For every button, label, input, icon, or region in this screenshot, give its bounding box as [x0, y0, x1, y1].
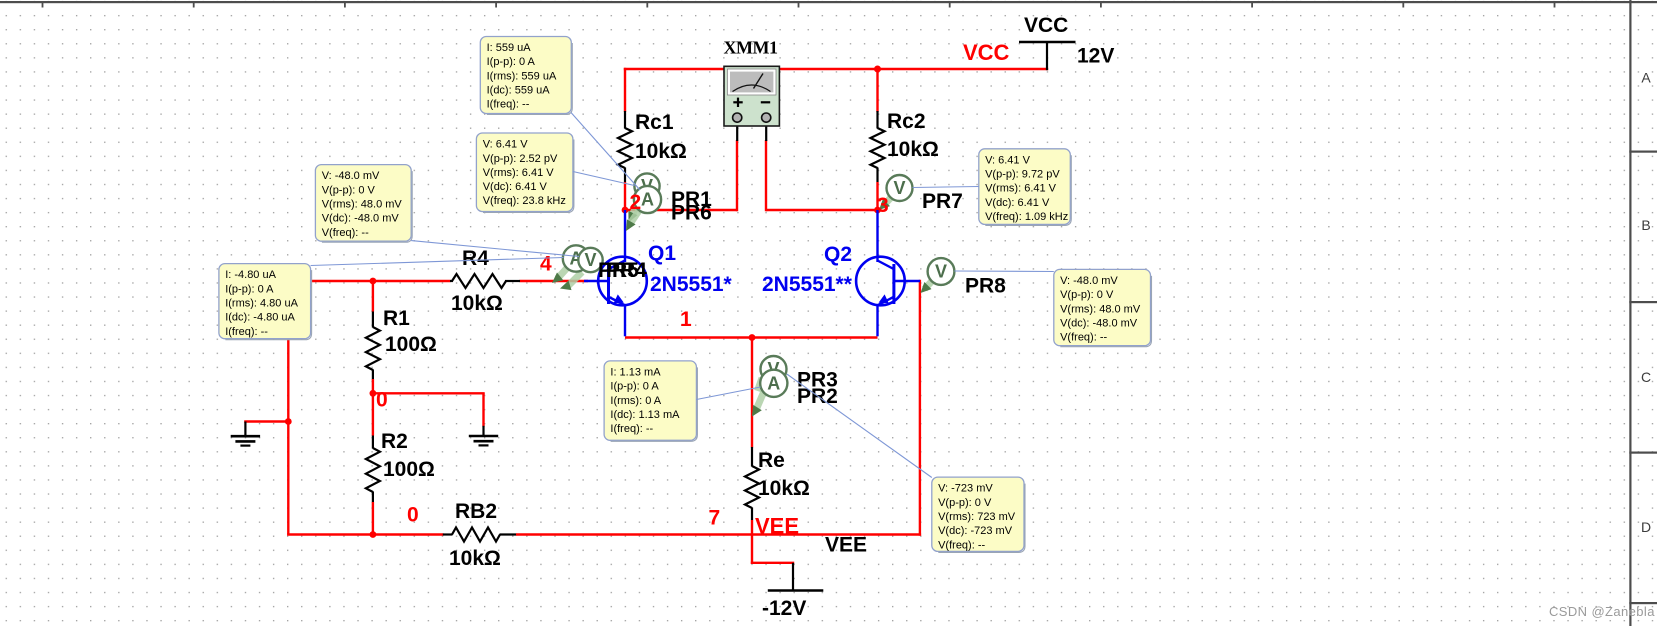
leader line box PR6	[573, 172, 635, 186]
svg-text:V: 6.41 V: V: 6.41 V	[985, 154, 1031, 166]
svg-text:V(dc): -48.0 mV: V(dc): -48.0 mV	[1060, 317, 1138, 329]
wire base net 4 horizontal right part	[520, 280, 589, 282]
wire Rc1 top lead	[624, 68, 626, 112]
node 2 junction dot	[622, 207, 629, 214]
svg-text:XMM1: XMM1	[724, 38, 778, 58]
svg-text:I(p-p): 0 A: I(p-p): 0 A	[487, 56, 536, 68]
svg-text:V: -48.0 mV: V: -48.0 mV	[322, 170, 380, 182]
svg-text:2N5551*: 2N5551*	[650, 273, 733, 296]
svg-text:10kΩ: 10kΩ	[449, 547, 501, 570]
svg-text:D: D	[1641, 519, 1651, 535]
wire Rc1 bottom to node 2	[624, 182, 626, 211]
svg-text:V(dc): 6.41 V: V(dc): 6.41 V	[985, 197, 1050, 209]
svg-text:V: -723 mV: V: -723 mV	[938, 483, 993, 495]
wire VEE bus right segment	[516, 533, 921, 535]
svg-text:V(dc): -723 mV: V(dc): -723 mV	[938, 525, 1013, 537]
resistor Rc1 10k	[618, 111, 687, 182]
svg-text:VCC: VCC	[1024, 14, 1068, 37]
transistor Q1 2N5551 (NPN)	[584, 242, 733, 305]
svg-text:V: V	[935, 262, 947, 282]
svg-text:0: 0	[376, 389, 388, 412]
resistor Rc2 10k	[871, 110, 939, 182]
svg-text:2N5551**: 2N5551**	[762, 273, 853, 296]
svg-text:100Ω: 100Ω	[385, 333, 437, 356]
svg-text:1: 1	[680, 308, 692, 331]
wire R1 bottom lead to node 0	[372, 379, 374, 394]
svg-text:V(freq): --: V(freq): --	[938, 539, 985, 551]
wire multimeter - pin drop	[765, 140, 767, 211]
svg-text:VEE: VEE	[825, 534, 867, 557]
svg-text:A: A	[641, 190, 654, 210]
leader line box PR2	[787, 374, 932, 478]
svg-text:I(rms): 4.80 uA: I(rms): 4.80 uA	[225, 298, 298, 310]
svg-text:V: V	[893, 178, 905, 198]
svg-text:100Ω: 100Ω	[383, 458, 435, 481]
wire R2 bottom lead	[372, 502, 374, 536]
wire base net 4 horizontal left part	[288, 280, 450, 282]
node 0 junction dot	[370, 390, 377, 397]
svg-text:10kΩ: 10kΩ	[451, 292, 503, 315]
leader line box PR3	[696, 387, 760, 400]
svg-text:Q1: Q1	[648, 242, 676, 265]
svg-text:I(dc): 559 uA: I(dc): 559 uA	[487, 85, 551, 97]
wire Rc2 top lead	[876, 68, 878, 112]
power VCC 12V supply symbol	[1019, 14, 1114, 70]
wire emitter bus (net 1)	[625, 336, 878, 338]
wire node2 horizontal to multimeter + pin	[624, 209, 737, 211]
leader line box PR4	[311, 258, 564, 266]
svg-text:I: 559 uA: I: 559 uA	[487, 42, 532, 54]
svg-text:I: -4.80 uA: I: -4.80 uA	[225, 269, 276, 281]
measurement box PR7 readings	[979, 149, 1072, 226]
measurement box PR5 readings	[315, 165, 412, 243]
svg-text:V(rms): 48.0 mV: V(rms): 48.0 mV	[1060, 303, 1141, 315]
node R4/R1 junction dot	[370, 278, 377, 285]
node VCC junction dot at Rc2 top	[874, 66, 881, 73]
wire Rc2 bottom to node 3	[876, 182, 878, 211]
wire base net 4 vertical drop to VEE bus	[287, 281, 289, 535]
svg-text:R4: R4	[462, 247, 489, 270]
measurement box PR2 readings	[932, 477, 1025, 552]
measurement box PR3 readings	[604, 361, 697, 441]
wire multimeter - to node 3	[766, 209, 879, 211]
svg-text:V(p-p): 0 V: V(p-p): 0 V	[1060, 289, 1114, 301]
svg-text:10kΩ: 10kΩ	[758, 477, 810, 500]
svg-text:V(p-p): 0 V: V(p-p): 0 V	[938, 497, 992, 509]
svg-text:Rc1: Rc1	[635, 111, 674, 134]
svg-text:3: 3	[877, 194, 889, 217]
probe PR8 (V) at Q2 base	[921, 258, 1007, 297]
sheet right border with zone labels	[1629, 0, 1657, 626]
svg-text:R1: R1	[383, 307, 410, 330]
leader line box PR5	[411, 241, 579, 257]
node ground junction dot	[285, 418, 292, 425]
svg-text:Re: Re	[758, 449, 785, 472]
resistor RB2 10k	[443, 500, 517, 570]
svg-text:V(freq): 23.8 kHz: V(freq): 23.8 kHz	[483, 195, 566, 207]
svg-text:V(p-p): 0 V: V(p-p): 0 V	[322, 184, 376, 196]
wire Q1 collector (blue)	[624, 210, 626, 262]
svg-text:A: A	[1641, 70, 1651, 86]
svg-text:I(freq): --: I(freq): --	[225, 326, 268, 338]
svg-text:I(p-p): 0 A: I(p-p): 0 A	[610, 381, 659, 393]
wire Re bottom through bus to VEE supply	[751, 520, 753, 564]
svg-text:V(freq): --: V(freq): --	[1060, 332, 1107, 344]
measurement box PR8 readings	[1054, 269, 1152, 346]
svg-text:C: C	[1641, 369, 1651, 385]
measurement box PR6 readings	[476, 133, 574, 213]
svg-text:A: A	[767, 373, 780, 393]
leader line box PR7	[913, 187, 979, 188]
svg-text:-12V: -12V	[762, 597, 806, 620]
svg-text:V: 6.41 V: V: 6.41 V	[483, 139, 529, 151]
svg-text:10kΩ: 10kΩ	[635, 140, 687, 163]
wire Re top lead	[751, 336, 753, 447]
svg-text:V(p-p): 9.72 pV: V(p-p): 9.72 pV	[985, 169, 1060, 181]
node RB2/R2 junction dot	[370, 531, 377, 538]
wire left ground stub	[244, 420, 289, 422]
svg-text:V(dc): -48.0 mV: V(dc): -48.0 mV	[322, 213, 400, 225]
svg-text:CSDN @Zanebla: CSDN @Zanebla	[1549, 604, 1655, 619]
wire multimeter + pin drop	[736, 140, 738, 211]
svg-text:VEE: VEE	[755, 514, 799, 539]
svg-text:4: 4	[540, 253, 552, 276]
probe PR4 (A) and PR5 (V) at node 4	[552, 245, 647, 290]
svg-text:I: 1.13 mA: I: 1.13 mA	[610, 367, 661, 379]
wire Q2 collector (blue)	[876, 210, 878, 262]
svg-text:12V: 12V	[1077, 45, 1114, 68]
svg-text:I(dc): -4.80 uA: I(dc): -4.80 uA	[225, 312, 295, 324]
svg-text:PR7: PR7	[922, 190, 963, 213]
svg-text:10kΩ: 10kΩ	[887, 138, 939, 161]
multimeter XMM1	[724, 38, 780, 142]
wire VCC top bus right segment	[779, 68, 1049, 70]
svg-text:7: 7	[709, 507, 721, 530]
wire Q1 emitter (blue)	[624, 304, 626, 336]
wire R1 top lead	[372, 281, 374, 312]
wire R2 top lead	[372, 393, 374, 435]
svg-text:V(rms): 723 mV: V(rms): 723 mV	[938, 511, 1016, 523]
ground (node 0, middle)	[469, 426, 498, 446]
resistor R4 10k	[450, 247, 520, 315]
svg-text:VCC: VCC	[963, 40, 1010, 65]
measurement box PR4 readings	[219, 264, 312, 340]
svg-text:B: B	[1641, 217, 1650, 233]
transistor Q2 2N5551 (NPN, mirrored)	[762, 243, 920, 305]
wire Q2 emitter (blue)	[876, 304, 878, 336]
leader line box PR8	[954, 270, 1053, 273]
measurement box PR1 readings	[480, 37, 572, 115]
resistor Re 10k	[745, 447, 810, 520]
svg-text:PR8: PR8	[965, 275, 1006, 298]
wire VEE bus left segment	[287, 533, 443, 535]
node 1 junction dot	[749, 334, 756, 341]
svg-text:R2: R2	[381, 430, 408, 453]
svg-text:V(dc): 6.41 V: V(dc): 6.41 V	[483, 181, 548, 193]
svg-text:V: -48.0 mV: V: -48.0 mV	[1060, 275, 1118, 287]
wire PR8 net vertical	[919, 280, 921, 536]
svg-text:V(rms): 6.41 V: V(rms): 6.41 V	[483, 167, 555, 179]
svg-text:I(p-p): 0 A: I(p-p): 0 A	[225, 283, 274, 295]
svg-text:0: 0	[407, 504, 419, 527]
svg-text:I(freq): --: I(freq): --	[487, 99, 530, 111]
sheet top border	[0, 1, 1657, 8]
wire node 0 to mid ground	[372, 392, 485, 394]
power VEE -12V supply symbol	[762, 563, 823, 620]
probe PR7 (V) at node 3	[879, 175, 963, 213]
svg-text:PR6: PR6	[671, 202, 712, 225]
svg-text:I(freq): --: I(freq): --	[610, 423, 653, 435]
ground (left)	[231, 422, 260, 446]
svg-text:V(p-p): 2.52 pV: V(p-p): 2.52 pV	[483, 153, 558, 165]
svg-text:V: V	[584, 250, 596, 270]
wire VCC top bus left segment	[624, 68, 725, 70]
svg-text:V(rms): 48.0 mV: V(rms): 48.0 mV	[322, 199, 403, 211]
svg-text:Rc2: Rc2	[887, 110, 926, 133]
svg-text:I(rms): 559 uA: I(rms): 559 uA	[487, 70, 557, 82]
svg-text:Q2: Q2	[824, 243, 852, 266]
resistor R1 100ohm	[366, 307, 437, 380]
probe PR1 (V) and PR6 (A) at node 2	[626, 173, 712, 231]
svg-text:V(freq): --: V(freq): --	[322, 227, 369, 239]
svg-text:V(freq): 1.09 kHz: V(freq): 1.09 kHz	[985, 211, 1068, 223]
svg-text:PR4: PR4	[606, 259, 647, 282]
svg-text:V(rms): 6.41 V: V(rms): 6.41 V	[985, 183, 1057, 195]
leader line box PR1	[571, 113, 640, 191]
resistor R2 100ohm	[366, 430, 435, 503]
svg-text:I(dc): 1.13 mA: I(dc): 1.13 mA	[610, 409, 680, 421]
probe PR3 (A) and PR2 (V) at node 1 / Re	[752, 356, 838, 417]
node 3 junction dot	[874, 207, 881, 214]
svg-text:I(rms): 0 A: I(rms): 0 A	[610, 395, 661, 407]
svg-text:2: 2	[630, 191, 642, 214]
svg-text:RB2: RB2	[455, 500, 497, 523]
